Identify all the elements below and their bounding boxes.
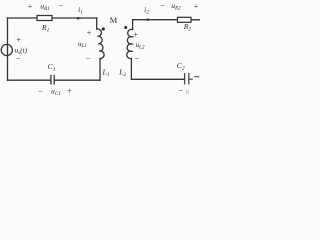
svg-text:L2: L2 — [118, 67, 126, 78]
wire right-loop left vertical (corner to L2) — [132, 20, 134, 30]
current arrow i2 — [143, 18, 149, 21]
svg-text:+: + — [16, 35, 21, 44]
svg-text:−: − — [16, 54, 21, 63]
svg-text:C2: C2 — [177, 61, 185, 72]
svg-text:+: + — [28, 2, 33, 11]
svg-text:−: − — [86, 54, 91, 63]
svg-text:R1: R1 — [41, 23, 50, 34]
resistor R2 box — [178, 17, 192, 22]
wire C2 right lead and faded segment — [189, 78, 192, 80]
svg-text:C1: C1 — [48, 62, 56, 73]
svg-text:+: + — [87, 28, 92, 37]
svg-text:−: − — [178, 86, 183, 95]
wire L2 bottom lead — [130, 59, 132, 80]
svg-text:i2: i2 — [144, 5, 149, 16]
wire top-left horizontal — [8, 17, 97, 19]
polarity dot of L2 — [124, 26, 127, 29]
inductor L1 coil — [97, 29, 104, 59]
svg-text:R2: R2 — [183, 22, 192, 33]
wire top-right horizontal — [133, 19, 200, 21]
svg-text:u: u — [185, 87, 189, 95]
svg-text:−: − — [59, 1, 64, 10]
svg-text:+: + — [67, 87, 72, 96]
wire bottom-right horizontal — [131, 78, 184, 80]
svg-text:M: M — [110, 16, 118, 25]
wire left vertical — [7, 18, 9, 80]
polarity dot of L1 — [102, 27, 105, 30]
wire bottom-left horizontal — [8, 79, 101, 81]
svg-text:L1: L1 — [101, 67, 109, 78]
wire left-loop right vertical (top corner to L1) — [96, 18, 98, 29]
inductor L2 coil — [127, 29, 133, 58]
wire L1 bottom lead — [99, 59, 101, 81]
svg-text:+: + — [194, 2, 199, 11]
current arrow i1 — [77, 17, 83, 20]
capacitor C2 plates — [185, 74, 189, 84]
svg-text:i1: i1 — [78, 5, 83, 16]
svg-text:−: − — [160, 1, 165, 10]
capacitor C1 plates — [51, 76, 54, 85]
svg-text:−: − — [135, 55, 140, 64]
svg-text:uR1: uR1 — [40, 2, 50, 13]
svg-text:uL2: uL2 — [135, 41, 144, 50]
voltage source us(t) circle — [1, 44, 12, 55]
resistor R1 box — [37, 16, 52, 21]
svg-text:uL1: uL1 — [78, 40, 87, 49]
svg-text:uC1: uC1 — [51, 88, 61, 97]
svg-text:+: + — [134, 30, 139, 39]
svg-text:uR2: uR2 — [171, 1, 181, 12]
svg-text:−: − — [38, 87, 43, 96]
